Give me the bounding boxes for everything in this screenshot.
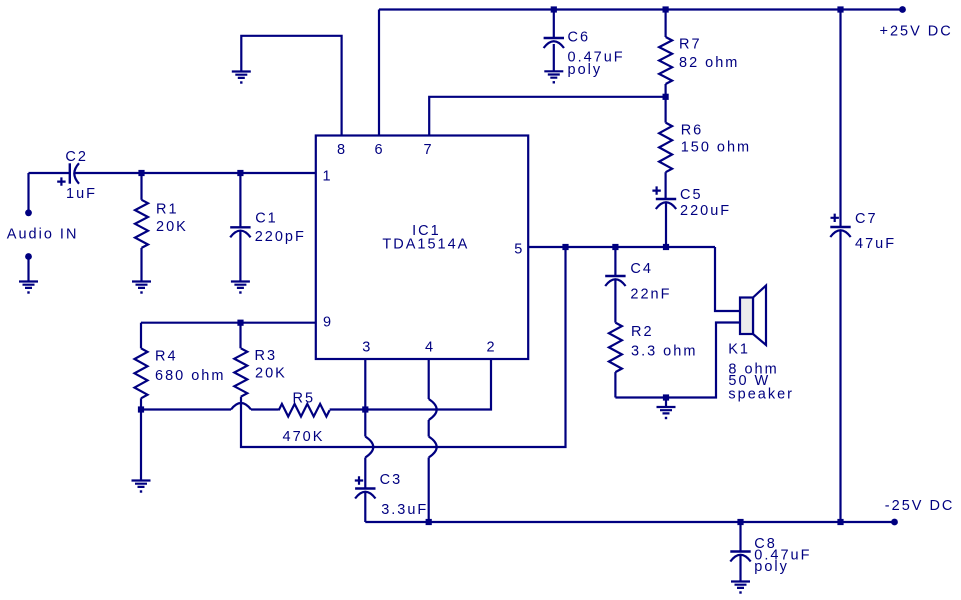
svg-text:2: 2: [486, 340, 494, 356]
svg-text:20K: 20K: [156, 219, 188, 235]
svg-text:speaker: speaker: [728, 387, 794, 403]
wire C6 bottom: [553, 44, 555, 71]
wire pin 4 mid: [428, 420, 430, 437]
capacitor C7 plus: [831, 214, 839, 222]
svg-text:220uF: 220uF: [680, 203, 731, 219]
node R5/pin3 junction: [362, 406, 368, 412]
wire feedback to R3: [241, 247, 566, 447]
ground C1: [231, 282, 250, 294]
wire audio ground stub: [27, 258, 29, 281]
node C1 top junction: [237, 170, 243, 176]
node C4 top junction: [612, 244, 618, 250]
wire pin 7 to R6/R7 node: [429, 97, 665, 136]
capacitor C6: [544, 37, 564, 39]
wire pin 9 line: [141, 322, 316, 324]
capacitor C5: [656, 198, 676, 200]
node pin 4 rail junction: [426, 519, 432, 525]
ground R4: [132, 481, 151, 493]
wire R4 bottom lead: [140, 398, 142, 409]
svg-text:K1: K1: [728, 342, 750, 358]
svg-text:3: 3: [362, 340, 370, 356]
svg-text:680 ohm: 680 ohm: [155, 368, 225, 384]
svg-text:150 ohm: 150 ohm: [681, 140, 751, 156]
svg-text:poly: poly: [754, 559, 789, 575]
op-amp U1 IC1 TDA1514A body: [316, 136, 528, 360]
svg-text:C5: C5: [680, 187, 703, 203]
svg-text:C4: C4: [630, 261, 653, 277]
ground pin 8: [232, 72, 251, 84]
wire C8 bottom lead: [739, 556, 741, 582]
svg-text:C6: C6: [568, 29, 591, 45]
node R1 top junction: [138, 170, 144, 176]
resistor R1: [135, 200, 148, 248]
resistor R3: [234, 348, 247, 396]
node C8 top junction: [737, 519, 743, 525]
resistor R7: [659, 37, 672, 84]
capacitor C2 plus: [57, 177, 65, 185]
svg-text:5: 5: [514, 242, 522, 258]
svg-text:3.3uF: 3.3uF: [381, 502, 428, 518]
svg-text:82 ohm: 82 ohm: [679, 55, 739, 71]
resistor R5: [279, 404, 330, 417]
wire +25V rail: [379, 8, 902, 10]
node R7 top junction: [663, 6, 669, 12]
svg-text:R5: R5: [293, 391, 316, 407]
wire R4 to ground: [140, 410, 142, 481]
svg-text:20K: 20K: [255, 366, 287, 382]
svg-text:4: 4: [425, 340, 433, 356]
wire R7 bottom lead: [664, 84, 666, 97]
resistor R6: [659, 123, 672, 173]
wire R4 node to hop: [141, 408, 231, 410]
wire C8 top lead: [739, 522, 741, 552]
wire pin 3 lead: [364, 359, 366, 437]
svg-text:8: 8: [337, 142, 345, 158]
wire C5 bottom lead: [665, 203, 667, 247]
node C7 top junction: [837, 6, 843, 12]
svg-text:220pF: 220pF: [255, 229, 306, 245]
capacitor C5 plus: [652, 186, 660, 194]
node C5 bottom junction: [663, 244, 669, 250]
svg-text:R6: R6: [681, 123, 704, 139]
wire R2 bottom lead: [614, 372, 616, 397]
svg-text:1: 1: [322, 169, 330, 185]
svg-text:6: 6: [374, 142, 382, 158]
wire C1 bottom lead: [239, 231, 241, 281]
svg-text:poly: poly: [568, 62, 603, 78]
svg-text:Audio IN: Audio IN: [7, 227, 79, 243]
wire speaker bottom return: [615, 323, 740, 398]
ground R1: [132, 282, 151, 294]
svg-text:C7: C7: [855, 211, 878, 227]
node audio ground terminal: [25, 253, 32, 260]
capacitor C4: [605, 275, 625, 277]
ground speaker: [657, 407, 676, 419]
svg-text:-25V DC: -25V DC: [885, 498, 955, 514]
svg-text:+25V DC: +25V DC: [880, 24, 953, 40]
resistor R2: [609, 323, 622, 373]
wire ground stub: [665, 398, 667, 407]
wire pin 1 input line right: [75, 172, 316, 174]
wire R1 top lead: [140, 173, 142, 200]
wire C3 to -25V rail: [364, 493, 366, 523]
node speaker ground junction: [663, 394, 669, 400]
wire C7 bottom lead: [839, 231, 841, 522]
wire pin 6 to +25V rail: [378, 10, 380, 136]
svg-text:9: 9: [323, 315, 331, 331]
wire R6 top lead: [664, 97, 666, 123]
wire pin 4 lead: [428, 359, 430, 399]
svg-text:R4: R4: [155, 349, 178, 365]
capacitor C1: [230, 226, 250, 228]
capacitor C8: [730, 550, 750, 552]
node R4 bottom junction: [138, 406, 144, 412]
node audio input terminal: [25, 209, 32, 216]
wire hop over R3 branch: [231, 403, 251, 410]
svg-text:R7: R7: [679, 37, 702, 53]
wire pin 5 output: [528, 246, 715, 248]
wire C4 top lead: [614, 247, 616, 276]
svg-text:R2: R2: [631, 324, 654, 340]
wire pin 8 to ground: [241, 36, 341, 136]
resistor R4: [135, 348, 148, 398]
svg-text:470K: 470K: [283, 429, 325, 445]
node C7 bottom junction: [837, 519, 843, 525]
node feedback junction: [562, 244, 568, 250]
node +25V terminal: [899, 6, 906, 13]
svg-text:47uF: 47uF: [855, 236, 896, 252]
wire C1 top lead: [239, 173, 241, 227]
wire hop to R5: [251, 408, 279, 410]
wire R1 bottom lead: [140, 248, 142, 281]
svg-text:R3: R3: [255, 348, 278, 364]
capacitor C7: [830, 226, 850, 228]
wire audio input drop: [27, 173, 29, 210]
wire C7 top lead: [839, 10, 841, 228]
svg-text:C2: C2: [65, 149, 88, 165]
capacitor C2: [70, 163, 79, 183]
svg-text:1uF: 1uF: [66, 186, 97, 202]
wire R7 top lead: [664, 10, 666, 38]
wire pin 3 to C3: [364, 458, 366, 489]
wire R5 to pin 2: [330, 359, 491, 410]
speaker K1: [740, 286, 766, 346]
svg-text:C3: C3: [380, 472, 403, 488]
ground audio input: [19, 282, 38, 294]
wire pin 4 to -25V rail: [428, 458, 430, 523]
wire C4 to R2: [614, 280, 616, 323]
wire pin 4 hop over R5 line: [429, 399, 437, 420]
wire pin 4 hop over feedback: [429, 437, 437, 458]
svg-text:TDA1514A: TDA1514A: [382, 237, 469, 253]
wire -25V rail: [365, 521, 894, 523]
svg-text:C1: C1: [255, 211, 278, 227]
wire R3 top lead: [239, 323, 241, 349]
wire pin 3 hop over feedback: [365, 437, 373, 458]
wire R4 top lead: [140, 323, 142, 349]
wire C6 top: [553, 10, 555, 39]
ground C8: [731, 582, 750, 594]
node R7/R6 junction: [663, 94, 669, 100]
ground C6: [544, 71, 563, 83]
capacitor C3: [355, 487, 375, 489]
wire pin 1 input line left: [29, 172, 70, 174]
wire R6 bottom lead: [664, 172, 666, 199]
node -25V terminal: [891, 519, 898, 526]
svg-text:3.3 ohm: 3.3 ohm: [631, 344, 697, 360]
svg-text:7: 7: [423, 142, 431, 158]
svg-text:22nF: 22nF: [630, 287, 671, 303]
svg-text:R1: R1: [156, 202, 179, 218]
wire output to speaker top: [715, 247, 740, 311]
capacitor C3 plus: [355, 476, 363, 484]
node C6 top junction: [551, 6, 557, 12]
node R3 top junction: [237, 320, 243, 326]
